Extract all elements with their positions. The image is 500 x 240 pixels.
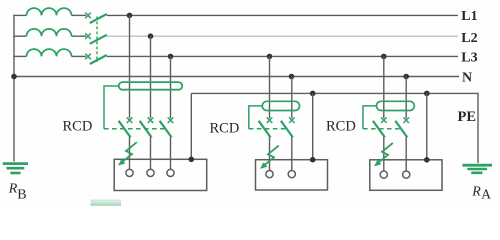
RCD1 pole 2 contact: [148, 117, 154, 123]
RCD2 pole 1 blade: [259, 121, 271, 138]
main switch QS pole 1 contact: [85, 13, 91, 19]
RCD3 pole 2 contact: [403, 117, 409, 123]
wire group1 phase B drop: [150, 36, 152, 118]
RCD3 pole 1 blade: [373, 121, 385, 138]
svg-text:RCD: RCD: [63, 119, 93, 135]
load box 3: [370, 160, 442, 191]
RCD3 pole 2 blade: [395, 121, 407, 138]
node L2 tap: [148, 33, 154, 39]
node L3 tap group2: [267, 54, 273, 60]
RCD2 pole 1 contact: [267, 117, 273, 123]
load3 terminal 2: [403, 171, 410, 178]
RCD2 pole 2 contact: [289, 117, 295, 123]
node L3 tap group3: [381, 54, 387, 60]
ground electrode RA: [463, 165, 493, 173]
RCD1 mechanical link dashed: [104, 128, 166, 130]
wire group1 phase B to load: [150, 137, 152, 169]
wire stub L3 to winding: [13, 55, 26, 57]
wire PE drop to load1 frame: [190, 93, 192, 159]
wire group3 neutral drop: [405, 77, 407, 119]
RCD3 trip link elbow: [363, 106, 377, 129]
RCD1 toroid: [119, 82, 183, 90]
svg-text:N: N: [462, 70, 472, 85]
node L3 tap group1: [168, 54, 174, 60]
load2 terminal 2: [288, 171, 295, 178]
node N bus junction: [11, 74, 17, 80]
load2 terminal 1: [266, 171, 273, 178]
node N tap group3: [403, 74, 409, 80]
svg-text:RCD: RCD: [326, 119, 356, 135]
svg-text:RCD: RCD: [210, 121, 240, 137]
svg-text:L2: L2: [461, 31, 477, 46]
RCD1 pole 1 blade: [119, 121, 131, 138]
load box 2: [256, 160, 328, 190]
neutral bus vertical wire: [13, 15, 15, 162]
main switch QS pole 3 blade: [90, 55, 107, 64]
svg-text:PE: PE: [458, 109, 477, 125]
main switch QS pole 3 contact: [85, 54, 91, 60]
load1 terminal 2: [147, 169, 154, 176]
transformer winding W2: [27, 29, 72, 36]
load box 1: [114, 159, 207, 190]
wire group3 phase drop: [383, 56, 385, 118]
svg-text:L1: L1: [461, 9, 477, 24]
node PE tap group2: [310, 91, 316, 97]
RCD3 pole 1 contact: [381, 117, 387, 123]
wire group2 neutral to load: [291, 137, 293, 171]
wire stub L2 to winding: [13, 35, 26, 37]
svg-text:B: B: [17, 188, 26, 203]
wire group1 phase C drop: [170, 56, 172, 118]
main switch QS pole 2 blade: [90, 35, 107, 44]
wire L3: [107, 55, 458, 57]
wire L1: [107, 14, 458, 16]
node load2 PE bond: [310, 157, 316, 163]
wire group2 neutral drop: [291, 77, 293, 119]
wire group2 phase drop: [269, 56, 271, 118]
wire group1 phase A to load: [129, 137, 131, 169]
RCD1 pole 3 blade: [160, 121, 172, 138]
main switch QS pole 1 blade: [90, 14, 107, 23]
load1 terminal 3: [167, 169, 174, 176]
wire group3 phase to load: [383, 137, 385, 171]
node N tap group2: [289, 74, 295, 80]
node L1 tap: [127, 13, 133, 19]
RCD2 toroid: [262, 101, 299, 110]
fault arrow 3: [374, 143, 393, 166]
transformer winding W3: [27, 49, 72, 56]
wire group1 phase C to load: [170, 137, 172, 169]
node PE tap group3: [424, 91, 430, 97]
fault arrow 2: [260, 146, 279, 169]
node load3 PE bond: [424, 157, 430, 163]
node load1 PE bond: [189, 157, 195, 163]
wire group3 neutral to load: [405, 137, 407, 171]
transformer winding W1: [27, 8, 72, 15]
RCD1 pole 3 contact: [168, 117, 174, 123]
wire PE vertical to earth RA: [477, 93, 479, 163]
svg-text:R: R: [471, 184, 481, 199]
main switch QS pole 2 contact: [85, 33, 91, 39]
svg-text:L3: L3: [461, 51, 477, 66]
wire PE drop to load3 frame: [426, 93, 428, 159]
watermark artifact: [91, 200, 122, 207]
RCD2 mechanical link dashed: [249, 128, 287, 130]
wire PE drop to load2 frame: [312, 93, 314, 159]
RCD2 pole 2 blade: [281, 121, 293, 138]
RCD1 pole 2 blade: [140, 121, 152, 138]
fault arrow 1: [118, 142, 137, 165]
wire L2 (light): [107, 35, 458, 37]
load1 terminal 1: [126, 169, 133, 176]
wire PE horizontal: [191, 92, 478, 94]
wire group1 phase A drop: [129, 15, 131, 118]
wire winding W1 to switch: [72, 14, 87, 16]
wire stub L1 to winding: [13, 14, 26, 16]
RCD3 toroid: [377, 101, 415, 110]
wire group2 phase to load: [269, 137, 271, 171]
svg-text:A: A: [481, 186, 491, 201]
RCD1 pole 1 contact: [127, 117, 133, 123]
ground electrode RB: [3, 164, 28, 173]
wire winding W2 to switch: [72, 35, 87, 37]
RCD2 trip link elbow: [249, 106, 262, 129]
wire N: [14, 76, 459, 78]
wire winding W3 to switch: [72, 55, 87, 57]
RCD1 trip link elbow: [104, 86, 119, 129]
main switch QS mechanical link: [96, 17, 98, 63]
load3 terminal 1: [380, 171, 387, 178]
RCD3 mechanical link dashed: [363, 128, 401, 130]
